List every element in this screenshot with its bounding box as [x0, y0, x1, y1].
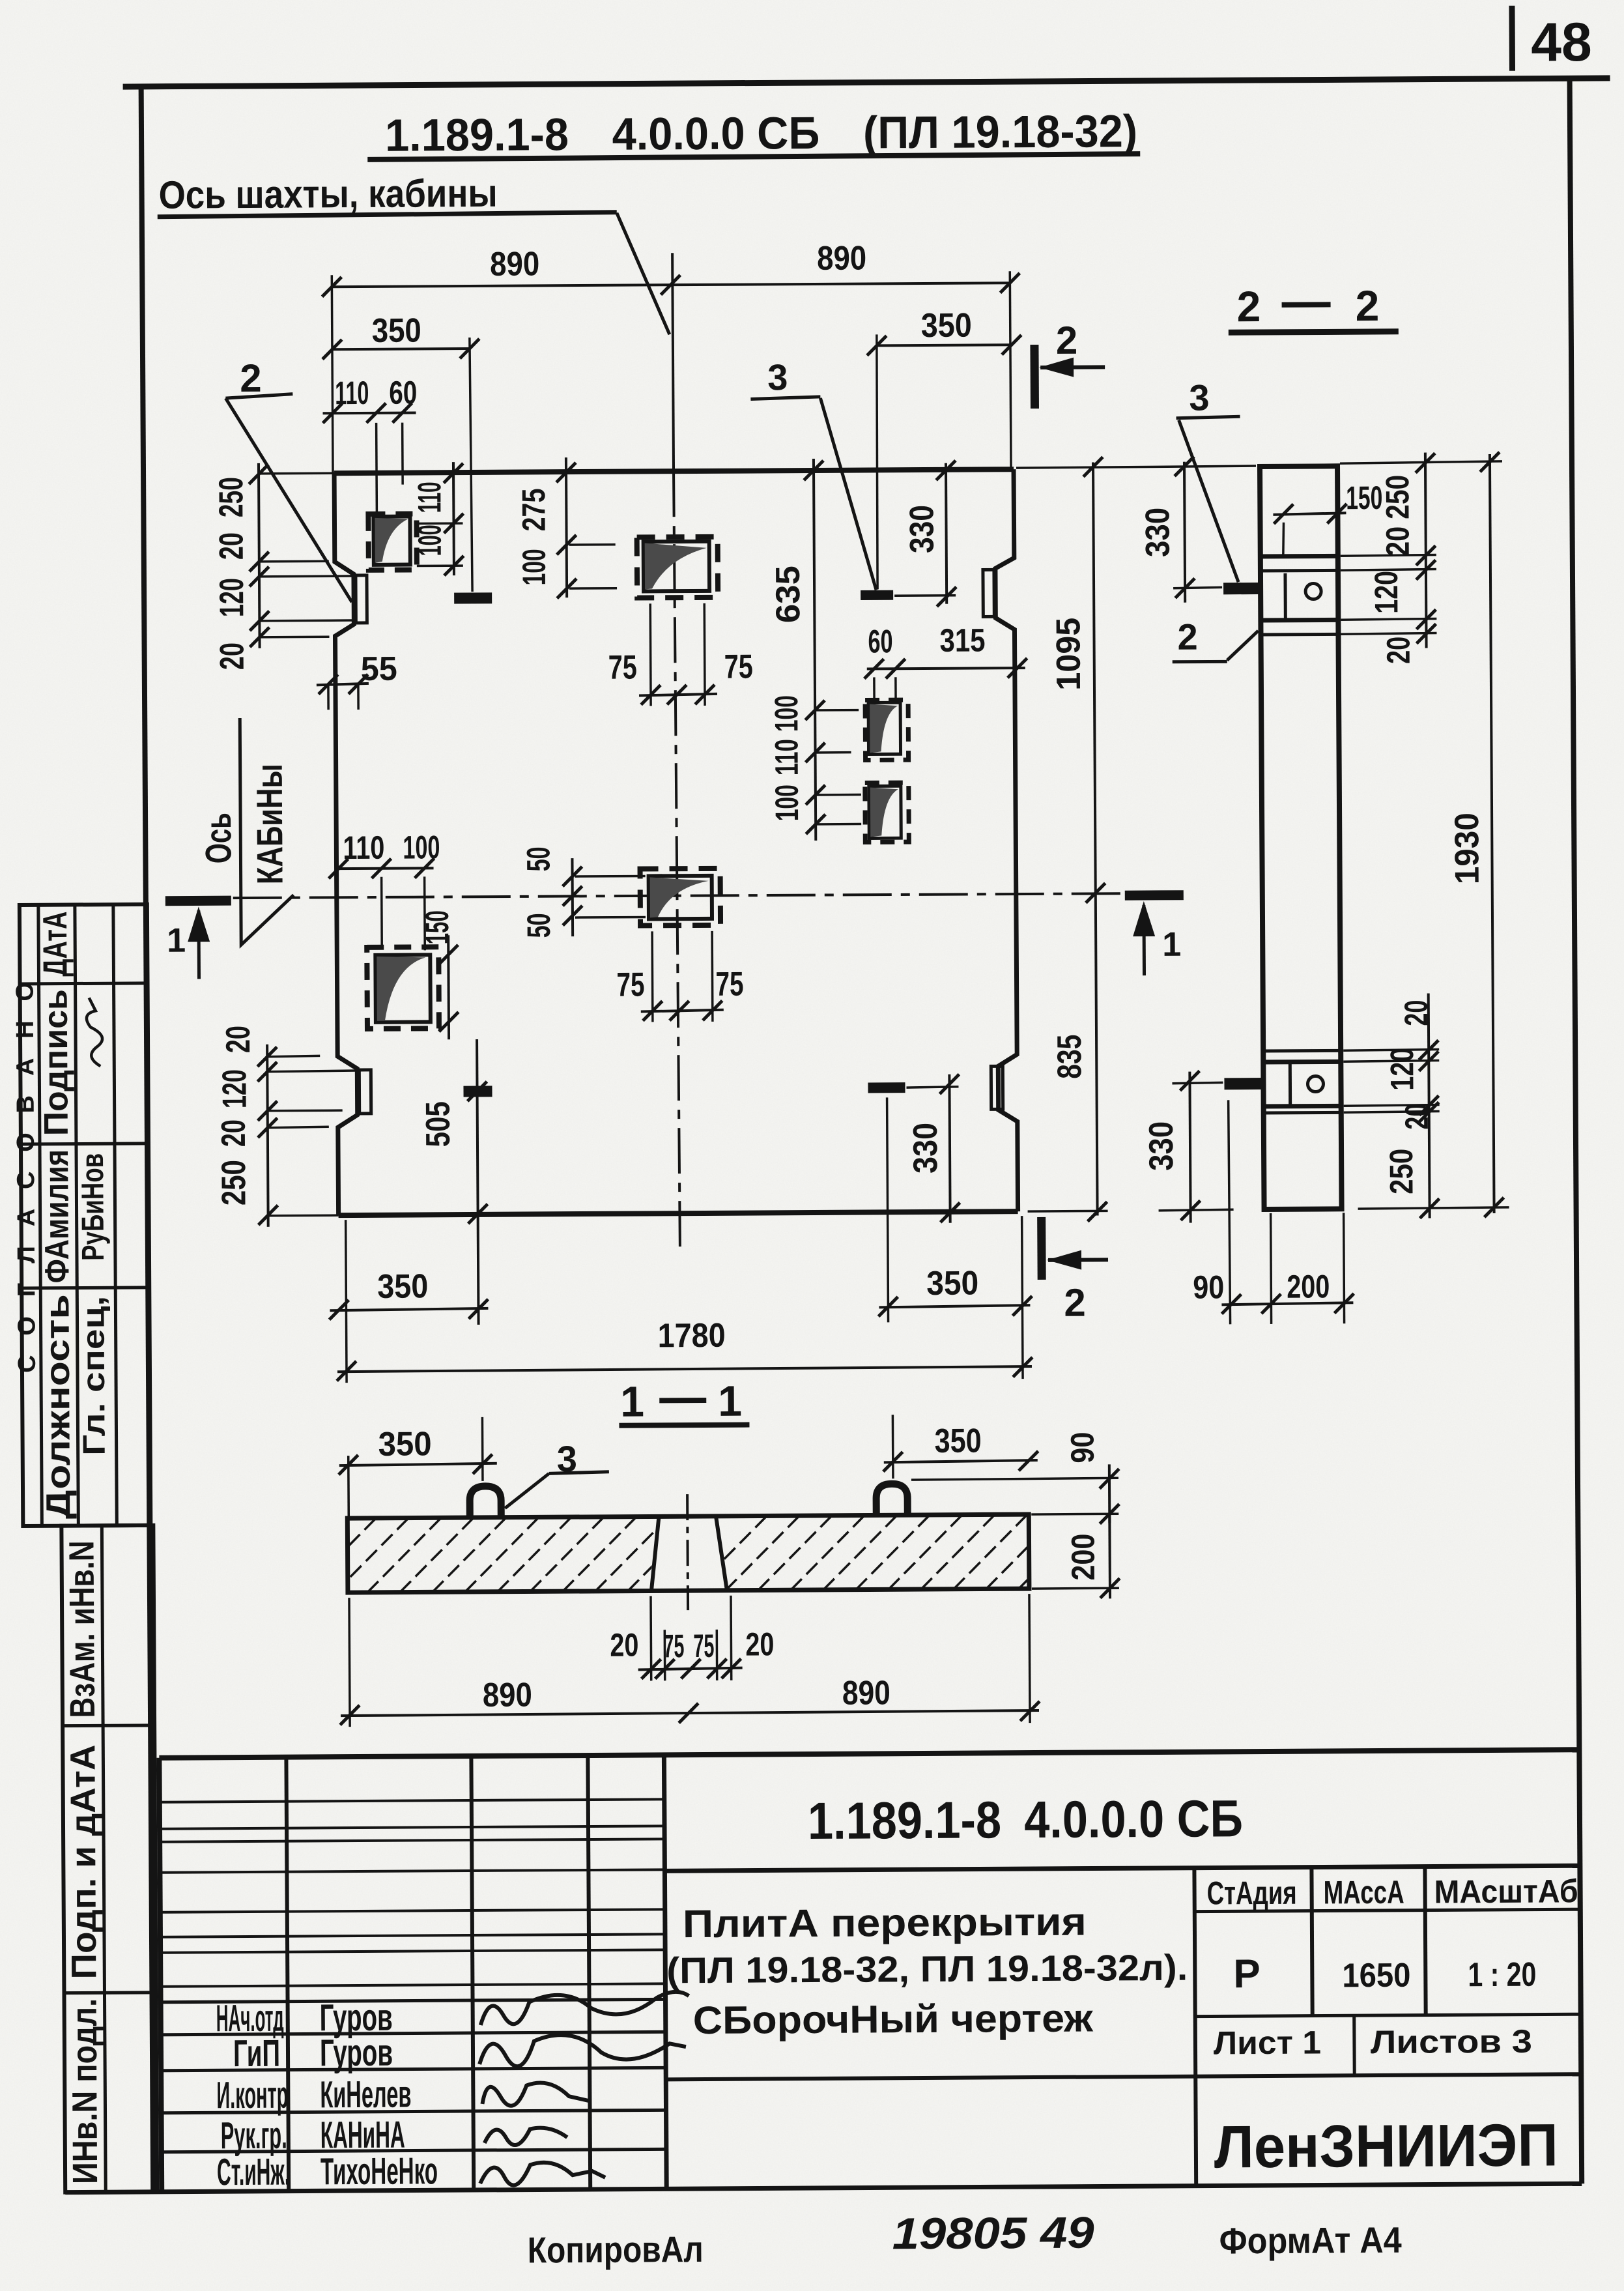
opening D wedge — [377, 956, 426, 1020]
vertical center axis (dash-dot) — [672, 253, 674, 471]
bottom band line — [666, 2074, 1581, 2079]
svg-text:3: 3 — [1189, 377, 1210, 418]
svg-text:20: 20 — [215, 1119, 253, 1147]
section arrow 1 left — [197, 910, 201, 979]
section center axis — [687, 1494, 688, 1610]
upper loop bar in section — [1223, 583, 1259, 594]
svg-text:1780: 1780 — [658, 1317, 726, 1355]
upper keyway divider — [1283, 573, 1287, 619]
opening E right-upper: dashed sleeve — [865, 700, 909, 760]
lower strip divider col — [102, 1525, 106, 2192]
svg-text:20: 20 — [213, 532, 251, 560]
svg-text:350: 350 — [377, 1267, 428, 1305]
right chain dim line lower 20/120/20/250 — [1429, 994, 1430, 1218]
left chain dim line upper — [259, 463, 260, 648]
dim 635 vertical — [814, 459, 816, 841]
lower keyway box bottom a — [1264, 1104, 1341, 1109]
dim 330 section bottom — [1190, 1072, 1190, 1223]
svg-text:200: 200 — [1287, 1268, 1330, 1304]
svg-text:150: 150 — [419, 910, 455, 944]
title block outline top — [159, 1750, 1579, 1758]
dim 1930 — [1490, 454, 1494, 1213]
svg-text:250: 250 — [1383, 1149, 1419, 1194]
svg-text:890: 890 — [490, 245, 539, 283]
section 2-2 title underline — [1229, 332, 1399, 333]
svg-text:Должность: Должность — [38, 1294, 78, 1519]
svg-text:СБорочНый чертеж: СБорочНый чертеж — [693, 1996, 1094, 2043]
lower keyway divider — [1289, 1063, 1292, 1105]
dim 90/200 below section — [1221, 1303, 1353, 1304]
svg-text:ВзАм. иНв.N: ВзАм. иНв.N — [62, 1540, 102, 1718]
dim 90 right (1-1) — [1108, 1464, 1111, 1523]
svg-text:1: 1 — [167, 922, 186, 960]
dim 20/75/75/20 (1-1) — [638, 1668, 743, 1670]
cut mark 2 top-right bar — [1030, 345, 1039, 409]
lower joint line a — [1263, 1049, 1341, 1053]
ext line left — [332, 275, 333, 473]
svg-text:90: 90 — [1193, 1269, 1224, 1305]
svg-text:1 : 20: 1 : 20 — [1468, 1956, 1536, 1995]
svg-text:890: 890 — [817, 239, 866, 277]
svg-text:ФормАт А4: ФормАт А4 — [1219, 2219, 1402, 2262]
svg-text:ИНв.N подл.: ИНв.N подл. — [65, 1998, 106, 2184]
dim 350 right line — [877, 345, 1012, 345]
svg-text:1: 1 — [718, 1377, 742, 1425]
cut mark 2 bottom-right bar — [1037, 1217, 1046, 1280]
dim 350 left (1-1) — [339, 1463, 497, 1465]
dim 1095/835 chain — [1093, 462, 1098, 1215]
svg-text:120: 120 — [216, 1069, 253, 1108]
svg-text:СтАдия: СтАдия — [1206, 1875, 1296, 1912]
chain 100/110/100 ext lines — [815, 709, 859, 712]
dim 110,100 mid-left — [339, 867, 434, 870]
frame left border — [141, 87, 154, 2192]
svg-text:350: 350 — [934, 1422, 981, 1460]
opening E wedge — [870, 704, 898, 753]
loop mark top-right — [861, 590, 893, 600]
svg-text:МАссА: МАссА — [1323, 1874, 1404, 1911]
dim 150 at opening D — [447, 935, 450, 1039]
svg-text:ДАтА: ДАтА — [36, 912, 75, 977]
svg-text:1: 1 — [1162, 926, 1181, 964]
upper joint line b — [1261, 569, 1338, 573]
opening B solid — [644, 541, 709, 592]
svg-text:2: 2 — [240, 356, 262, 400]
svg-text:2: 2 — [1236, 282, 1261, 330]
svg-text:48: 48 — [1531, 11, 1592, 73]
svg-text:75: 75 — [608, 649, 637, 687]
bottom dim 350 right — [879, 1305, 1030, 1307]
svg-text:Лист 1: Лист 1 — [1214, 2024, 1321, 2062]
svg-text:350: 350 — [378, 1425, 431, 1463]
svg-text:330: 330 — [1139, 508, 1176, 557]
lower strip row 2642 — [63, 1723, 154, 1727]
svg-text:20: 20 — [1399, 1103, 1435, 1129]
left lower keyway plate — [359, 1070, 371, 1114]
dim 350 left line — [332, 349, 470, 349]
svg-text:ГиП: ГиП — [233, 2032, 280, 2075]
axis thick dash left — [165, 896, 231, 906]
svg-text:МАсштАб: МАсштАб — [1434, 1873, 1578, 1910]
signature scribbles — [480, 1992, 689, 2025]
svg-text:КиНелев: КиНелев — [320, 2073, 411, 2116]
section 1-1 title underline — [619, 1425, 749, 1426]
svg-text:110: 110 — [343, 829, 384, 866]
upper table row 1503 — [20, 983, 148, 984]
svg-text:20: 20 — [214, 642, 251, 670]
cut 2 leader underline — [225, 394, 292, 399]
lower hole circle — [1307, 1076, 1323, 1091]
dim 200 right (1-1) — [1108, 1514, 1111, 1598]
svg-text:330: 330 — [907, 1123, 945, 1174]
dim 150 top of section — [1273, 513, 1346, 515]
svg-text:19805 49: 19805 49 — [892, 2208, 1094, 2259]
svg-text:330: 330 — [903, 505, 941, 553]
plan left edge with keyway recesses — [334, 473, 358, 1215]
opening A wedge — [375, 518, 408, 563]
svg-text:20: 20 — [1380, 637, 1417, 664]
lifting loop right (1-1) — [876, 1484, 907, 1516]
leader for Ось кабины — [240, 718, 294, 945]
dim 350 right (1-1) — [884, 1460, 1038, 1462]
dim 330 right-top — [946, 463, 947, 604]
svg-text:315: 315 — [939, 622, 985, 658]
left upper keyway plate — [356, 575, 367, 623]
svg-text:350: 350 — [921, 307, 972, 345]
upper table col 61 — [38, 905, 42, 1526]
opening F solid — [869, 786, 901, 838]
svg-text:60: 60 — [868, 623, 892, 659]
upper keyway box bottom a — [1261, 618, 1338, 623]
svg-text:55: 55 — [361, 650, 397, 688]
lower joint line b — [1263, 1059, 1341, 1065]
svg-text:20: 20 — [745, 1626, 774, 1662]
slab section hatching right — [692, 1510, 1097, 1591]
svg-text:2: 2 — [1056, 319, 1078, 362]
upper keyway box bottom b — [1261, 633, 1338, 637]
ext vertical through left loop — [470, 338, 472, 592]
svg-text:350: 350 — [372, 311, 421, 349]
opening A solid — [373, 517, 410, 565]
loop mark bottom-left — [464, 1086, 492, 1097]
svg-text:75: 75 — [715, 966, 743, 1003]
page number tick — [1509, 6, 1515, 71]
svg-text:110: 110 — [768, 739, 805, 775]
frame bottom border — [65, 2183, 1582, 2192]
ext line right — [1010, 271, 1011, 469]
frame top border — [123, 78, 1610, 87]
left chain dim line lower — [267, 1045, 268, 1227]
opening B wedge — [645, 543, 707, 590]
svg-text:КАБиНы: КАБиНы — [249, 764, 291, 884]
cut 2 leader diagonal — [225, 397, 352, 603]
joint slant right — [716, 1518, 727, 1591]
lower strip row 3052 — [64, 1991, 156, 1995]
svg-text:110: 110 — [335, 375, 369, 411]
right upper keyway plate — [983, 569, 994, 616]
dim 55 — [317, 684, 369, 685]
upper table col 176 — [113, 904, 117, 1525]
svg-text:Ось: Ось — [197, 813, 238, 863]
upper table row 1749 — [21, 1144, 149, 1144]
svg-text:120: 120 — [1384, 1048, 1420, 1091]
opening F right-lower: dashed sleeve — [865, 783, 909, 842]
svg-text:50: 50 — [520, 913, 557, 938]
bottom dim 350 left — [330, 1308, 488, 1310]
signature rotated — [87, 998, 103, 1066]
slab section hatching left — [302, 1512, 706, 1593]
svg-text:75: 75 — [663, 1628, 684, 1664]
dim 100/110 at opening A — [453, 462, 454, 575]
right chain ext lines upper — [1341, 555, 1436, 556]
svg-text:100: 100 — [403, 829, 440, 865]
dim 75/75 below opening B — [639, 694, 717, 696]
opening C solid — [649, 876, 712, 919]
slab section outline — [347, 1514, 1029, 1592]
svg-text:890: 890 — [483, 1676, 532, 1714]
svg-text:Гуров: Гуров — [320, 2032, 393, 2075]
svg-text:2: 2 — [1064, 1281, 1086, 1325]
ext to lower loop — [1172, 1082, 1223, 1083]
svg-text:Подпись: Подпись — [37, 989, 76, 1136]
svg-text:2: 2 — [1355, 281, 1379, 330]
plan right edge with keyway recesses — [995, 469, 1018, 1211]
ext vertical through right loop — [876, 334, 878, 589]
svg-text:20: 20 — [610, 1627, 638, 1664]
svg-text:635: 635 — [769, 566, 808, 623]
right chain dim line upper 250/20/120/20 — [1425, 453, 1427, 648]
svg-text:330: 330 — [1143, 1121, 1180, 1171]
svg-text:250: 250 — [215, 1160, 253, 1205]
svg-text:20: 20 — [1380, 526, 1416, 556]
dim 275/100 near opening B — [566, 457, 567, 598]
column 897 — [588, 1755, 590, 2189]
dim 50/50 mid — [571, 858, 574, 936]
svg-text:Гл. спец,: Гл. спец, — [76, 1296, 111, 1456]
svg-text:3: 3 — [767, 356, 788, 397]
svg-text:КопировАл: КопировАл — [528, 2228, 704, 2271]
label underline — [158, 212, 617, 217]
loop mark top-left — [454, 592, 492, 603]
ext to upper loop — [1173, 587, 1222, 588]
svg-text:Листов 3: Листов 3 — [1371, 2023, 1532, 2060]
svg-text:110: 110 — [411, 482, 448, 513]
svg-text:1930: 1930 — [1448, 813, 1487, 884]
ext bottom edge to 1930 — [1358, 1207, 1509, 1209]
list row line — [1195, 2014, 1581, 2016]
opening F wedge — [870, 787, 898, 837]
svg-text:100: 100 — [769, 785, 805, 821]
svg-text:ЛенЗНИИЭП: ЛенЗНИИЭП — [1214, 2112, 1559, 2180]
svg-text:100: 100 — [516, 549, 552, 585]
opening E solid — [868, 702, 900, 754]
opening C wedge — [650, 877, 709, 918]
upper joint line a — [1261, 554, 1338, 559]
lifting loop left (1-1) — [470, 1486, 501, 1519]
stadia columns verticals — [1194, 1868, 1196, 2186]
ext verticals to opening A — [375, 423, 378, 512]
right lower keyway plate — [991, 1066, 1003, 1109]
upper table row 1970 — [21, 1288, 149, 1288]
lower left strip outline — [61, 1525, 157, 2193]
dim 75/75 mid — [641, 1010, 724, 1012]
svg-text:Подп. и дАтА: Подп. и дАтА — [63, 1744, 104, 1979]
svg-text:РуБиНов: РуБиНов — [76, 1153, 111, 1261]
svg-text:2: 2 — [1177, 616, 1198, 657]
left part row lines — [160, 1799, 664, 1802]
svg-text:ФАмилия: ФАмилия — [38, 1149, 76, 1283]
axis thick dash right — [1125, 890, 1184, 901]
loop mark bottom-right — [868, 1082, 905, 1093]
svg-text:120: 120 — [213, 578, 251, 617]
svg-text:890: 890 — [842, 1674, 890, 1712]
svg-text:1.189.1-8 4.0.0.0 СБ: 1.189.1-8 4.0.0.0 СБ — [808, 1789, 1244, 1850]
svg-text:1: 1 — [620, 1377, 644, 1425]
svg-text:90: 90 — [1064, 1432, 1101, 1463]
svg-text:Ст.иНж.: Ст.иНж. — [217, 2151, 290, 2194]
dim 505 — [477, 1039, 479, 1325]
opening A top-left: dashed sleeve — [368, 513, 416, 569]
joint slant left — [651, 1518, 659, 1591]
svg-text:100: 100 — [412, 525, 448, 556]
opening D solid — [375, 955, 431, 1022]
horizontal center axis (dash-dot) — [233, 893, 1122, 899]
opening D mid-left: dashed sleeve — [367, 947, 439, 1029]
dim 110/60 line — [323, 411, 416, 414]
svg-text:ТихоНеНко: ТихоНеНко — [321, 2150, 438, 2193]
bottom dim 1780 — [337, 1366, 1032, 1372]
svg-text:Ось шахты, кабины: Ось шахты, кабины — [158, 171, 497, 217]
frame right border — [1570, 78, 1582, 2183]
dim 330 right-bottom — [949, 1074, 950, 1223]
svg-text:50: 50 — [520, 846, 556, 871]
section body outline — [1260, 466, 1342, 1209]
plan bottom edge — [339, 1211, 1018, 1215]
header row line — [1195, 1909, 1580, 1911]
svg-text:(ПЛ 19.18-32, ПЛ 19.18-32л).: (ПЛ 19.18-32, ПЛ 19.18-32л). — [666, 1947, 1188, 1991]
cut mark 2 arrow — [1040, 365, 1105, 369]
svg-text:250: 250 — [1379, 475, 1416, 519]
main title underline — [367, 154, 1140, 160]
plan top edge — [334, 469, 1014, 473]
svg-text:150: 150 — [1346, 480, 1382, 516]
cut mark 2 bottom arrow — [1048, 1258, 1108, 1262]
dim 330 section top — [1184, 462, 1185, 603]
svg-text:20: 20 — [220, 1026, 257, 1053]
svg-text:350: 350 — [926, 1265, 978, 1303]
title area divider — [664, 1866, 1580, 1871]
dim 890+890 line — [332, 283, 1010, 287]
svg-text:250: 250 — [212, 477, 250, 517]
dim 60/315 — [867, 668, 1025, 669]
svg-text:100: 100 — [768, 695, 805, 732]
upper left table outline — [20, 904, 150, 1526]
column 434 — [286, 1757, 289, 2191]
svg-text:75: 75 — [616, 966, 644, 1003]
svg-text:200: 200 — [1064, 1533, 1101, 1580]
column 1014 — [664, 1755, 666, 2189]
svg-text:120: 120 — [1368, 571, 1404, 614]
svg-text:505: 505 — [420, 1101, 457, 1147]
svg-text:835: 835 — [1051, 1035, 1089, 1079]
svg-text:275: 275 — [515, 488, 552, 531]
opening C mid-center: dashed sleeve — [640, 869, 720, 926]
leader to center axis — [617, 212, 670, 334]
list divider — [1352, 2015, 1356, 2075]
svg-text:ПлитА перекрытия: ПлитА перекрытия — [683, 1900, 1087, 1946]
svg-text:75: 75 — [693, 1628, 714, 1664]
ext top edge to 1930 — [1340, 461, 1502, 463]
svg-text:75: 75 — [724, 648, 753, 686]
ext horizontals — [259, 472, 334, 474]
opening B top-center: dashed sleeve — [637, 537, 719, 598]
lower loop bar in section — [1224, 1078, 1262, 1089]
svg-text:60: 60 — [389, 374, 417, 411]
dim 890/890 (1-1) — [341, 1710, 1039, 1716]
upper hole circle — [1305, 583, 1321, 599]
svg-text:Р: Р — [1233, 1952, 1261, 1996]
svg-text:1095: 1095 — [1049, 618, 1088, 691]
column 718 — [471, 1756, 474, 2190]
upper table col 117 — [75, 905, 78, 1526]
svg-text:20: 20 — [1398, 1000, 1434, 1026]
svg-text:1650: 1650 — [1342, 1957, 1410, 1995]
svg-text:И.контр: И.контр — [216, 2074, 288, 2117]
title block left edge — [159, 1758, 162, 2192]
lower keyway box bottom b — [1264, 1111, 1341, 1115]
right chain ext lines lower — [1343, 1049, 1439, 1050]
section arrow 1 right — [1142, 905, 1146, 975]
